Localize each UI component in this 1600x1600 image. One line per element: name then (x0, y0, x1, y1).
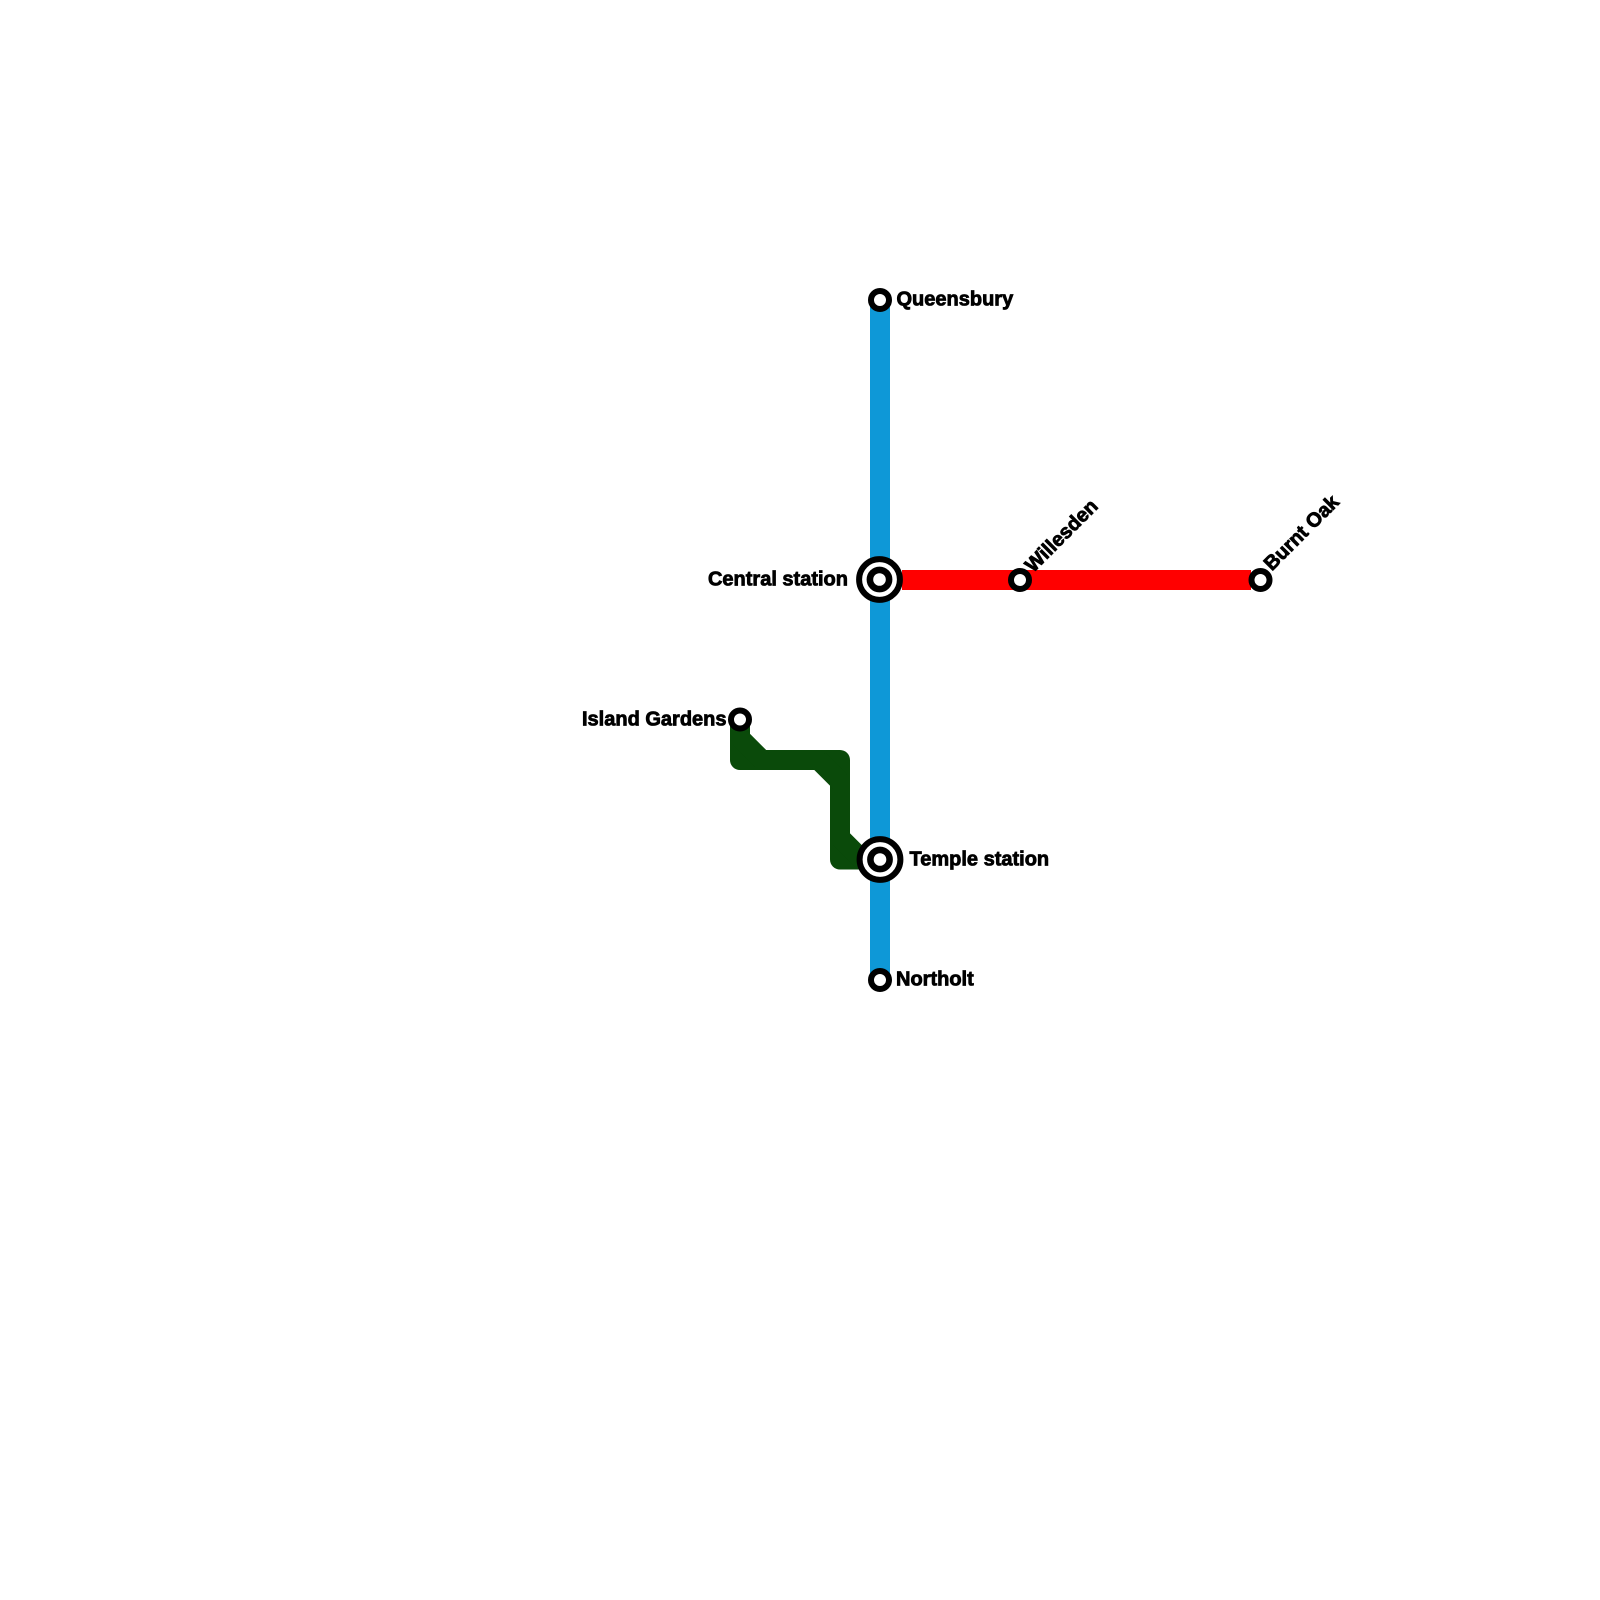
svg-text:Central station: Central station (708, 569, 848, 591)
svg-text:Island Gardens: Island Gardens (582, 708, 727, 730)
svg-text:Northolt: Northolt (896, 969, 974, 991)
svg-text:Temple station: Temple station (910, 849, 1050, 871)
svg-text:Queensbury: Queensbury (897, 289, 1015, 311)
